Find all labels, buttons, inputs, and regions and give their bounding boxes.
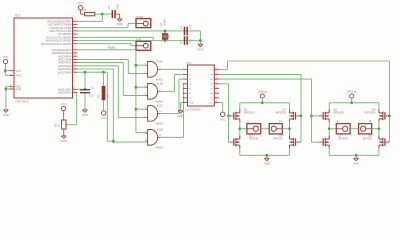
wire to Q6 gate <box>388 115 389 117</box>
wire CD+ to VCC <box>219 103 223 112</box>
svg-text:8: 8 <box>183 101 184 103</box>
wire PWM to gate B in1 <box>136 86 146 88</box>
svg-text:17: 17 <box>73 58 75 60</box>
VCC supply reset <box>78 1 84 10</box>
wire to Q4 gate <box>300 116 301 142</box>
wire PWM to gate A in1 <box>136 64 146 66</box>
svg-text:14: 14 <box>215 87 217 89</box>
junction crystal top <box>164 30 167 33</box>
junction reset node <box>101 13 104 16</box>
wire C3 to ground <box>84 93 86 109</box>
node motor 1B <box>378 127 381 130</box>
wire to Q8 gate <box>388 116 389 142</box>
supply VDDmot bridge Q5 <box>347 91 357 99</box>
node motor A <box>238 127 241 130</box>
svg-text:(ADC0)PA0: (ADC0)PA0 <box>58 91 72 95</box>
wire Q2 to motor <box>289 121 291 129</box>
VCC supply divider <box>61 102 67 111</box>
VCC supply IC5 <box>220 112 226 121</box>
wire motor to Q7 <box>328 129 330 137</box>
wire to C4 <box>102 13 111 15</box>
wire XTAL2 net <box>78 30 201 32</box>
svg-text:5: 5 <box>183 87 184 89</box>
svg-text:DIR: DIR <box>136 38 141 42</box>
svg-text:18: 18 <box>215 68 217 70</box>
wire PB2 jog <box>78 37 154 40</box>
svg-text:GND: GND <box>117 22 123 26</box>
wire ground rail Q3 <box>240 154 290 156</box>
svg-text:GND: GND <box>178 114 184 118</box>
transistor Q1 IRF9530 <box>230 108 255 123</box>
capacitor C2 <box>179 24 192 35</box>
svg-text:IC2: IC2 <box>15 14 20 18</box>
svg-text:TINY26LS: TINY26LS <box>15 100 29 104</box>
terminal 1B <box>359 120 372 134</box>
wire Q6 to motor <box>378 121 380 129</box>
svg-text:IRF630: IRF630 <box>338 137 348 141</box>
wire rail to ground Q3 <box>266 155 268 158</box>
wire ground rail Q7 <box>329 154 379 156</box>
svg-text:IC1D: IC1D <box>157 128 163 132</box>
wire down to C3 <box>84 72 86 89</box>
svg-text:GND: GND <box>16 88 22 91</box>
wire to terminal 1B <box>372 128 379 130</box>
resistor R1 <box>96 86 109 100</box>
svg-text:1: 1 <box>73 42 74 44</box>
svg-text:4081D: 4081D <box>156 122 164 126</box>
ground crystal <box>197 44 203 51</box>
wire Q3 to ground rail <box>239 147 241 155</box>
IC2 VCC AVCC GND pins <box>10 69 23 91</box>
wire PA0 to divider <box>66 93 78 125</box>
wire between terminals <box>261 128 270 130</box>
wire PWM from PA7 <box>78 50 136 65</box>
svg-text:13: 13 <box>215 92 217 94</box>
svg-text:1A: 1A <box>279 120 282 123</box>
svg-text:1: 1 <box>183 68 184 70</box>
svg-text:16: 16 <box>215 78 217 80</box>
svg-text:14: 14 <box>73 67 75 69</box>
wire crystal caps right <box>199 31 201 41</box>
svg-text:GND: GND <box>3 113 9 117</box>
connector DIR <box>136 38 151 51</box>
svg-text:11: 11 <box>73 91 75 93</box>
junction crystal bottom <box>164 39 167 42</box>
wire to crystal ground <box>199 41 201 44</box>
wire PWM down 2 <box>135 87 137 109</box>
svg-text:GND: GND <box>82 113 88 117</box>
wire PB0 to DIR <box>78 44 137 46</box>
svg-text:VCC: VCC <box>61 102 67 106</box>
wire O1 to Q6 gate net <box>219 61 389 116</box>
wire PA1 to node <box>78 88 86 90</box>
svg-text:7: 7 <box>183 96 184 98</box>
wire reset to PB7 <box>78 14 103 21</box>
wire Q5 to motor <box>328 121 330 129</box>
wire between terminals <box>350 128 359 130</box>
transistor Q3 IRF530 <box>230 134 259 149</box>
wire gate D to I4 <box>161 84 184 138</box>
supply VDDmot bridge Q1 <box>258 91 268 99</box>
wire to terminal A <box>240 128 247 130</box>
svg-text:C1: C1 <box>91 85 95 89</box>
svg-text:C2: C2 <box>179 25 183 29</box>
net label PWM <box>108 46 116 50</box>
IC2 ATtiny26 body <box>14 14 73 104</box>
wire phase D <box>78 69 146 142</box>
svg-text:(MOSI/DI/SDA/OC1A)PB0: (MOSI/DI/SDA/OC1A)PB0 <box>41 42 72 46</box>
svg-text:VDDmot: VDDmot <box>347 91 357 94</box>
wire O2 to Q2 gate net <box>219 74 301 116</box>
svg-text:ULN2803A: ULN2803A <box>187 108 201 112</box>
transistor Q7 IRF630 <box>319 134 348 149</box>
capacitor C3 <box>80 85 95 97</box>
wire phase B <box>78 63 146 96</box>
VCC supply sense <box>101 111 107 120</box>
svg-text:12: 12 <box>73 88 75 90</box>
svg-text:27p: 27p <box>188 39 192 44</box>
wire C4 to ground <box>116 14 120 19</box>
wire IC5 ground <box>181 103 183 111</box>
svg-text:6: 6 <box>10 85 11 87</box>
wire GND pin1 <box>6 86 10 89</box>
junction Q5 gate <box>310 115 313 118</box>
svg-text:1B: 1B <box>368 120 371 123</box>
svg-text:VCC: VCC <box>78 1 84 5</box>
svg-text:IC5: IC5 <box>186 61 191 65</box>
svg-text:(ADC0)PA0: (ADC0)PA0 <box>58 70 72 74</box>
wire VCC to R3 <box>63 111 65 120</box>
ground left <box>3 110 9 117</box>
junction ground rail Q7 <box>355 154 358 157</box>
wire to terminal 1A <box>282 128 289 130</box>
svg-text:15: 15 <box>215 82 217 84</box>
svg-text:IRF9630: IRF9630 <box>365 110 376 114</box>
svg-text:18: 18 <box>73 55 75 57</box>
junction GND pins <box>5 88 8 91</box>
junction PWM gate B <box>135 86 138 89</box>
junction PWM gate C <box>135 108 138 111</box>
svg-text:IRF530: IRF530 <box>249 137 259 141</box>
wire to VCC pin <box>5 70 9 72</box>
node motor B <box>328 127 331 130</box>
junction R1 drop <box>102 71 105 74</box>
AND gate IC1D 4081D <box>145 128 164 150</box>
junction crystal gnd <box>199 39 202 42</box>
wire to Q5 gate <box>312 115 320 117</box>
svg-text:3: 3 <box>73 36 74 38</box>
junction Q1 gate <box>227 115 230 118</box>
svg-text:9: 9 <box>73 23 74 25</box>
connector STEP <box>136 15 151 28</box>
wire GND rail down <box>5 89 7 109</box>
svg-text:6: 6 <box>183 92 184 94</box>
wire PWM to gate C in1 <box>136 108 146 110</box>
svg-text:IC1A: IC1A <box>157 60 163 64</box>
IC2 PA7-PA0 pins <box>51 48 77 74</box>
svg-text:STEP: STEP <box>136 15 143 19</box>
junction Q6 gate <box>388 115 391 118</box>
svg-text:GND: GND <box>264 161 270 165</box>
transistor Q5 IRF9630 <box>319 108 344 123</box>
svg-text:GND: GND <box>353 161 359 165</box>
wire VDDmot drop Q1 <box>261 98 263 103</box>
svg-text:IC1B: IC1B <box>157 82 163 86</box>
junction VDD rail Q1 <box>261 101 264 104</box>
wire rail to Q1 <box>239 103 241 111</box>
svg-text:VDDmot: VDDmot <box>258 91 268 94</box>
wire VDD rail Q1 <box>240 102 290 104</box>
wire Q1 to motor <box>239 121 241 129</box>
svg-text:17: 17 <box>215 73 217 75</box>
svg-text:13: 13 <box>73 71 75 73</box>
svg-text:Q1: Q1 <box>159 22 163 26</box>
junction PWM gate A <box>135 64 138 67</box>
wire O4 to Q1 gate net <box>219 84 228 116</box>
svg-text:VCC: VCC <box>101 116 107 120</box>
svg-text:VCC: VCC <box>220 118 226 122</box>
VCC supply left <box>3 55 9 64</box>
transistor Q4 IRF530 <box>273 134 299 149</box>
wire sense to gate D <box>104 72 114 141</box>
wire motor to Q8 <box>378 129 380 137</box>
svg-text:IRF630: IRF630 <box>363 137 373 141</box>
wire R1 to VCC <box>103 100 105 110</box>
node motor 1A <box>288 127 291 130</box>
svg-text:GND: GND <box>189 103 194 105</box>
terminal A <box>247 121 261 134</box>
svg-text:12: 12 <box>215 96 217 98</box>
wire gate A to I1 <box>161 68 183 70</box>
wire to R1 <box>103 72 105 86</box>
wire to terminal B <box>329 128 336 130</box>
wire R2 to C4 <box>95 13 103 15</box>
wire PWM to gate D in1 <box>136 109 146 132</box>
svg-text:100: 100 <box>89 94 94 98</box>
resistor R2 <box>83 8 95 16</box>
svg-text:5: 5 <box>10 69 11 71</box>
terminal 1A <box>269 120 282 134</box>
wire rail to Q5 <box>328 103 330 111</box>
wire VCC to R2 <box>81 10 85 14</box>
svg-text:16: 16 <box>10 87 12 89</box>
AND gate IC1B 4081D <box>145 82 164 104</box>
ground reset cap <box>117 19 123 26</box>
svg-text:2: 2 <box>183 73 184 75</box>
svg-text:15: 15 <box>73 64 75 66</box>
junction sense cap <box>84 71 87 74</box>
wire motor to Q3 <box>239 129 241 137</box>
svg-text:4: 4 <box>183 82 184 84</box>
svg-text:16: 16 <box>73 61 75 63</box>
svg-text:AVCC: AVCC <box>16 75 23 78</box>
wire XTAL1 net <box>78 40 201 42</box>
svg-text:VCC: VCC <box>3 55 9 59</box>
svg-text:IRF9630: IRF9630 <box>333 110 344 114</box>
AND gate IC1C 4081D <box>145 104 164 126</box>
junction PA1 <box>84 88 87 91</box>
svg-text:100n: 100n <box>115 3 119 9</box>
svg-text:10: 10 <box>73 20 75 22</box>
wire Q7 to ground rail <box>328 147 330 155</box>
wire R3 to ground <box>63 129 65 136</box>
junction ground rail Q3 <box>265 154 268 157</box>
svg-text:VCC: VCC <box>16 70 21 73</box>
IC2 PB7-PB0 pins <box>41 19 78 45</box>
svg-text:2: 2 <box>73 39 74 41</box>
wire to Q2 gate <box>300 115 301 117</box>
IC5 ULN2803A body <box>186 61 214 111</box>
wire PA0 sense <box>78 71 104 73</box>
svg-text:8: 8 <box>73 26 74 28</box>
svg-text:C1: C1 <box>179 40 183 44</box>
svg-text:19: 19 <box>73 51 75 53</box>
capacitor C4 <box>107 3 119 18</box>
wire GND pin2 <box>6 88 10 90</box>
svg-text:3: 3 <box>183 78 184 80</box>
wire to Q1 gate <box>229 115 230 117</box>
svg-text:10k: 10k <box>106 94 110 99</box>
ground divider <box>61 136 67 143</box>
svg-text:GND: GND <box>61 139 67 143</box>
wire VDDmot drop Q5 <box>351 98 353 103</box>
svg-text:6: 6 <box>73 33 74 35</box>
crystal Q1 12MHz <box>159 18 168 41</box>
transistor Q6 IRF9630 <box>365 108 389 123</box>
transistor Q2 IRF9530 <box>275 108 299 123</box>
wire phase C <box>78 66 146 118</box>
wire rail to ground Q7 <box>355 155 357 158</box>
IC2 PA1 PA0 pins <box>58 87 78 94</box>
wire O3 to Q5 gate net <box>219 79 311 116</box>
junction phase D <box>112 140 115 143</box>
wire gate B to I2 <box>161 74 183 91</box>
wire Q4 to ground rail <box>289 147 291 155</box>
capacitor C1 <box>179 36 192 45</box>
svg-text:R4: R4 <box>83 8 87 12</box>
wire to Q7 gate <box>312 116 320 142</box>
ground IC5 <box>178 111 184 118</box>
junction VCC pin <box>4 69 7 72</box>
svg-text:C4: C4 <box>107 5 111 9</box>
wire VCC rail down <box>4 64 6 71</box>
svg-text:12MHz: 12MHz <box>163 18 167 27</box>
wire VDD rail Q5 <box>329 102 379 104</box>
svg-text:GND: GND <box>197 47 203 51</box>
svg-text:R1: R1 <box>96 95 100 99</box>
wire rail to Q2 <box>289 103 291 111</box>
svg-text:20: 20 <box>73 48 75 50</box>
svg-text:15: 15 <box>10 74 12 76</box>
wire to Q3 gate <box>229 116 230 142</box>
transistor Q8 IRF630 <box>363 134 389 149</box>
ground sense cap <box>82 110 88 117</box>
junction Q2 gate <box>300 115 303 118</box>
svg-text:27p: 27p <box>188 24 192 29</box>
wire phase A <box>78 59 146 73</box>
svg-text:CD+: CD+ <box>208 103 213 105</box>
wire motor to Q4 <box>289 129 291 137</box>
wire Q8 to ground rail <box>378 147 380 155</box>
svg-text:IC1C: IC1C <box>157 104 163 108</box>
svg-text:11: 11 <box>215 101 217 103</box>
wire PB5 to STEP <box>78 24 137 28</box>
terminal B <box>336 121 350 134</box>
ground bridge Q7 <box>353 158 359 165</box>
ground bridge Q3 <box>264 158 270 165</box>
svg-text:IRF9530: IRF9530 <box>275 110 286 114</box>
svg-text:4081D: 4081D <box>156 146 164 150</box>
IC5 output pins <box>208 68 219 104</box>
junction VDD rail Q5 <box>350 101 353 104</box>
IC5 input pins <box>183 68 194 104</box>
wire gate C to I3 <box>161 79 183 113</box>
wire to AVCC pin <box>5 71 9 76</box>
AND gate IC1A 4081D <box>145 60 164 82</box>
svg-text:IRF9530: IRF9530 <box>244 110 255 114</box>
wire rail to Q6 <box>378 103 380 111</box>
wire PWM down 1 <box>135 65 137 87</box>
svg-text:7: 7 <box>73 29 74 31</box>
svg-text:IRF530: IRF530 <box>273 137 283 141</box>
resistor R3 <box>54 120 66 129</box>
